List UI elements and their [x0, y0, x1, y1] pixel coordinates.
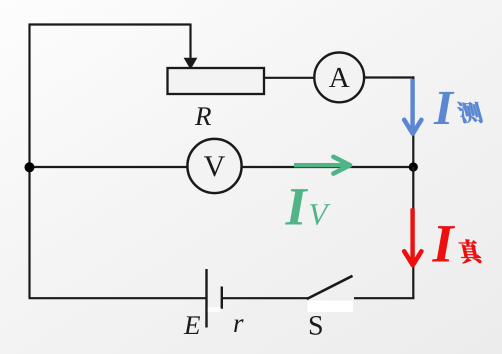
switch S blade: [307, 276, 353, 299]
wire bottom left to battery: [29, 297, 207, 299]
ammeter A1: [314, 53, 364, 103]
arrow I_zhen red arrowhead: [404, 251, 421, 265]
wire rheostat to ammeter: [264, 77, 314, 79]
arrow I_V green current shaft: [294, 163, 347, 167]
voltmeter V1: [187, 139, 241, 193]
svg-text:R: R: [194, 101, 212, 131]
svg-text:r: r: [233, 308, 244, 338]
wire slider arrow stem: [189, 24, 191, 59]
node junction right: [409, 162, 418, 171]
slider arrowhead into rheostat: [184, 58, 198, 70]
white highlight under battery: [208, 307, 221, 312]
arrow I_ce blue arrowhead: [404, 120, 421, 134]
wire switch to right: [354, 297, 414, 299]
wire middle horizontal: [30, 166, 414, 168]
wire left vertical: [28, 25, 30, 299]
battery E long plate: [205, 269, 207, 328]
svg-text:V: V: [309, 197, 331, 232]
wire top horizontal: [29, 23, 191, 25]
wire battery to switch: [223, 297, 308, 299]
arrow I_ce blue current shaft: [410, 79, 414, 131]
svg-text:I: I: [432, 214, 456, 274]
label CE glyph blue: [456, 102, 485, 123]
arrow I_zhen red current shaft: [410, 208, 414, 262]
wire right vertical lower: [412, 167, 414, 298]
svg-text:A: A: [329, 62, 350, 94]
battery r short plate: [221, 287, 223, 309]
svg-text:S: S: [308, 311, 324, 342]
svg-text:I: I: [433, 80, 455, 135]
svg-text:I: I: [285, 177, 309, 237]
white highlight under switch: [308, 301, 354, 313]
node junction left: [25, 162, 35, 172]
svg-text:E: E: [183, 310, 201, 340]
arrow I_V green arrowhead: [333, 157, 350, 174]
label ZHEN glyph red: [457, 239, 482, 263]
resistor R1 rheostat body: [168, 68, 265, 94]
wire ammeter to right corner: [365, 76, 415, 78]
wire right vertical upper: [412, 76, 414, 168]
svg-text:V: V: [204, 150, 226, 183]
